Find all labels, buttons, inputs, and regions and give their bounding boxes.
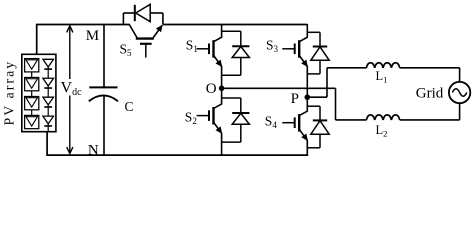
svg-text:Vdc: Vdc <box>61 79 83 98</box>
svg-text:N: N <box>88 142 99 158</box>
svg-text:L1: L1 <box>376 69 388 85</box>
svg-text:P: P <box>291 91 299 107</box>
svg-text:M: M <box>86 28 99 44</box>
svg-text:C: C <box>125 99 134 114</box>
svg-text:S2: S2 <box>185 109 197 126</box>
svg-text:S1: S1 <box>186 37 198 54</box>
svg-text:S4: S4 <box>265 113 278 130</box>
svg-text:S5: S5 <box>120 41 133 58</box>
svg-text:O: O <box>206 81 217 97</box>
svg-text:Grid: Grid <box>416 86 444 102</box>
svg-text:L2: L2 <box>376 123 388 139</box>
svg-text:S3: S3 <box>266 37 279 54</box>
svg-text:PV array: PV array <box>2 60 17 126</box>
